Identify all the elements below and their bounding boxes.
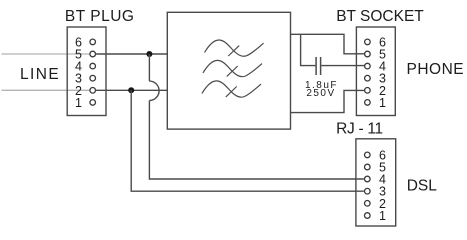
pin 5 of BT PLUG (75, 48, 95, 62)
svg-text:1: 1 (379, 209, 386, 223)
svg-text:RJ - 11: RJ - 11 (336, 120, 383, 137)
pin 5 of BT SOCKET (365, 48, 386, 62)
wire node B down and right to RJ-11 pin 3 (131, 90, 364, 191)
svg-text:LINE: LINE (20, 66, 60, 83)
wire plug pin5 to filter input A (96, 53, 168, 55)
junction dot node B (128, 87, 134, 93)
svg-text:1: 1 (379, 96, 386, 110)
pin 1 of BT PLUG (75, 96, 95, 110)
value label 1.8uF 250V (305, 80, 338, 99)
svg-text:1: 1 (75, 96, 82, 110)
filter symbol wave 2 (203, 60, 262, 76)
wire continuation down and right to RJ-11 pin 4 (149, 101, 363, 180)
filter U1 box (167, 12, 290, 129)
junction dot node A (146, 51, 152, 57)
svg-text:BT PLUG: BT PLUG (65, 8, 135, 25)
pin 3 of BT PLUG (75, 72, 95, 86)
filter symbol wave 3 (202, 81, 261, 97)
wire node A down to RJ-11 pin 4 (with hop) (148, 54, 150, 81)
pin 6 of RJ-11 (365, 148, 387, 162)
connector J3 RJ-11 body (356, 139, 396, 226)
pin 4 of BT PLUG (75, 60, 95, 74)
pin 6 of BT PLUG (75, 35, 95, 49)
wire LINE ring (left telephone line, lower) (2, 89, 90, 91)
wire hop over lower line (149, 81, 159, 100)
pin 1 of BT SOCKET (365, 96, 386, 110)
svg-text:DSL: DSL (407, 178, 438, 195)
pin 2 of BT PLUG (75, 84, 95, 98)
pin 2 of RJ-11 (365, 197, 387, 211)
connector J2 BT SOCKET body (356, 27, 395, 116)
pin 5 of RJ-11 (365, 161, 387, 175)
svg-text:BT SOCKET: BT SOCKET (336, 8, 424, 25)
wire capacitor to BT SOCKET pin 4 (321, 65, 364, 67)
wire branch down to capacitor C1 (301, 34, 316, 65)
pin 4 of BT SOCKET (365, 60, 386, 74)
wire filter top output to BT SOCKET pin 5 (291, 34, 365, 54)
svg-text:PHONE: PHONE (407, 61, 465, 78)
connector J1 BT PLUG body (67, 27, 106, 116)
capacitor C1 plates (316, 57, 321, 75)
filter symbol wave 1 (205, 40, 264, 56)
pin 4 of RJ-11 (365, 173, 387, 187)
pin 3 of BT SOCKET (365, 72, 386, 86)
pin 1 of RJ-11 (365, 209, 387, 223)
svg-text:250V: 250V (306, 88, 335, 99)
pin 3 of RJ-11 (365, 185, 387, 199)
pin 6 of BT SOCKET (365, 35, 386, 49)
pin 2 of BT SOCKET (365, 84, 386, 98)
wire LINE tip (left telephone line, upper) (2, 53, 90, 55)
wire plug pin2 to filter input B (96, 89, 168, 91)
wire filter bottom output to BT SOCKET pin 2 (291, 90, 365, 112)
